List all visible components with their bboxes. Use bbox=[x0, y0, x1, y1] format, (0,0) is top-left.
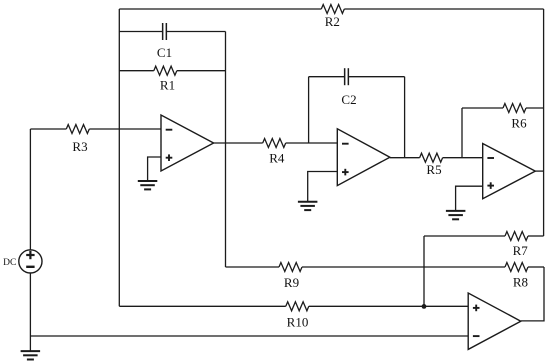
svg-text:R8: R8 bbox=[513, 275, 528, 290]
wire: bottom net to U4 inverting input bbox=[30, 335, 468, 337]
wire: R7 left lead bbox=[424, 235, 505, 237]
resistor R10 bbox=[286, 302, 309, 330]
resistor R9 bbox=[279, 263, 302, 291]
wire: U1 output bbox=[214, 142, 263, 144]
wire: R10 left lead bbox=[119, 305, 285, 307]
svg-text:R9: R9 bbox=[284, 275, 299, 290]
op-amp U1 bbox=[161, 115, 214, 171]
wire: node A vertical to R7 bbox=[423, 236, 425, 306]
resistor R2 bbox=[321, 5, 344, 30]
wire: R9 to R8 segment bbox=[302, 266, 505, 268]
svg-text:DC: DC bbox=[3, 258, 16, 268]
svg-text:R2: R2 bbox=[325, 14, 340, 29]
resistor R5 bbox=[420, 153, 443, 177]
wire: left vertical, U1 inverting summing node bbox=[118, 9, 120, 306]
node A junction dot bbox=[422, 304, 427, 309]
wire: R3 left lead from DC+ bbox=[30, 128, 66, 130]
wire: DC source positive lead bbox=[29, 129, 31, 250]
svg-text:R4: R4 bbox=[269, 151, 285, 166]
wire: C2 left vertical to U2 inverting input bbox=[308, 77, 310, 143]
resistor R7 bbox=[505, 232, 528, 258]
DC source V1 bbox=[3, 250, 42, 273]
wire: C1 left lead bbox=[119, 31, 162, 33]
wire: R1 left lead bbox=[119, 70, 154, 72]
svg-text:R6: R6 bbox=[511, 115, 527, 130]
ground (DC source) bbox=[21, 336, 40, 360]
wire: R6 feedback vertical bbox=[461, 108, 463, 158]
svg-text:C2: C2 bbox=[341, 92, 356, 107]
wire: R6 right lead bbox=[526, 107, 544, 109]
resistor R6 bbox=[503, 104, 527, 131]
resistor R4 bbox=[263, 139, 286, 166]
op-amp U2 bbox=[337, 129, 390, 186]
wire: U2 output bbox=[390, 157, 420, 159]
wire: DC source negative lead bbox=[29, 273, 31, 336]
svg-text:R5: R5 bbox=[426, 162, 441, 177]
svg-text:R7: R7 bbox=[513, 243, 529, 258]
wire: C2 left lead bbox=[309, 76, 345, 78]
resistor R3 bbox=[66, 125, 89, 155]
wire: R6 left lead bbox=[462, 107, 503, 109]
wire: U3 non-inverting input to ground bbox=[456, 186, 483, 211]
wire: R1 right lead bbox=[177, 70, 226, 72]
wire: top net right segment from R2 bbox=[344, 8, 543, 10]
svg-text:C1: C1 bbox=[157, 45, 172, 60]
capacitor C2 bbox=[341, 68, 356, 107]
ground (U2) bbox=[298, 202, 318, 210]
svg-text:R10: R10 bbox=[287, 315, 309, 330]
resistor R1 bbox=[154, 66, 177, 92]
wire: R4 to U2 inverting input bbox=[286, 142, 338, 144]
ground (U1) bbox=[138, 181, 158, 189]
wire: U3 output bbox=[535, 170, 543, 172]
wire: C2 right lead bbox=[348, 76, 404, 78]
wire: R7 right lead bbox=[528, 235, 544, 237]
wire: R8 right lead bbox=[528, 266, 544, 268]
capacitor C1 bbox=[157, 23, 172, 60]
wire: R8 to U4 output bbox=[521, 267, 544, 321]
wire: right vertical, U3 output net bbox=[543, 9, 545, 236]
wire: R3 right lead to U1 inverting input bbox=[89, 128, 161, 130]
svg-text:R1: R1 bbox=[160, 78, 175, 93]
wire: C2 right vertical to U2 output bbox=[404, 77, 406, 158]
wire: R10 to U4 non-inverting input bbox=[309, 305, 468, 307]
wire: R9 left lead bbox=[226, 266, 280, 268]
wire: U1 output feedback vertical bbox=[225, 32, 227, 268]
op-amp U4 bbox=[468, 293, 521, 349]
wire: U1 non-inverting input to ground bbox=[148, 157, 161, 181]
wire: U2 non-inverting input to ground bbox=[308, 172, 338, 202]
wire: top net left segment to R2 bbox=[119, 8, 321, 10]
resistor R8 bbox=[505, 263, 528, 290]
op-amp U3 bbox=[483, 144, 536, 199]
svg-text:R3: R3 bbox=[72, 139, 87, 154]
wire: R5 to U3 inverting input bbox=[443, 157, 483, 159]
wire: C1 right lead bbox=[166, 31, 225, 33]
ground (U3) bbox=[446, 211, 466, 219]
